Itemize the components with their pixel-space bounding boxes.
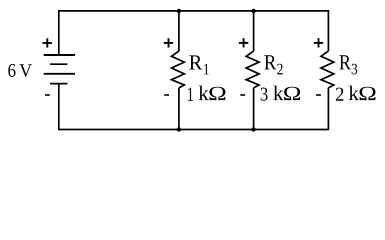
wire R2 bottom lead bbox=[253, 88, 255, 130]
wire R3 top lead bbox=[327, 11, 329, 51]
battery long plate 2 bbox=[44, 73, 75, 75]
R1 value digit 1 bbox=[188, 88, 193, 101]
R3 value letter k bbox=[349, 86, 359, 100]
resistor R2 zigzag bbox=[246, 51, 259, 88]
wire top rail bbox=[58, 10, 329, 12]
wire R1 bottom lead bbox=[178, 88, 180, 130]
R1 minus sign bbox=[164, 94, 169, 96]
R2 designator subscript 2 bbox=[277, 64, 282, 75]
resistor R1 zigzag bbox=[172, 51, 185, 88]
resistor R3 bbox=[321, 11, 334, 130]
resistor R1 bbox=[172, 11, 185, 130]
R2 plus sign bbox=[239, 38, 248, 47]
battery V1 6 V bbox=[44, 11, 75, 130]
battery value label 6 bbox=[8, 64, 15, 77]
resistor R2 bbox=[246, 11, 259, 130]
R1 designator subscript 1 bbox=[204, 64, 208, 75]
wire R2 top lead bbox=[253, 11, 255, 51]
resistor R3 zigzag bbox=[321, 51, 334, 88]
junction dot node B top bbox=[251, 9, 255, 13]
wire battery top lead bbox=[58, 11, 60, 55]
wire bottom rail bbox=[58, 129, 329, 131]
battery short plate 2 bbox=[50, 83, 67, 85]
wire R3 bottom lead bbox=[327, 88, 329, 130]
battery value label V bbox=[19, 64, 32, 77]
R2 designator letter R bbox=[264, 55, 276, 69]
battery long plate 1 bbox=[44, 54, 75, 56]
R2 value letter k bbox=[273, 86, 283, 100]
junction dot node A top bbox=[177, 9, 181, 13]
battery plus sign bbox=[43, 38, 53, 47]
R3 designator subscript 3 bbox=[352, 64, 357, 75]
battery short plate 1 bbox=[50, 63, 67, 65]
R3 plus sign bbox=[314, 38, 323, 47]
R1 plus sign bbox=[164, 38, 173, 47]
junction dot node A bottom bbox=[177, 127, 181, 131]
battery minus sign bbox=[45, 94, 50, 96]
R3 value ohm symbol bbox=[360, 87, 376, 100]
R3 value digit 2 bbox=[336, 88, 343, 101]
R3 minus sign bbox=[316, 94, 321, 96]
junction dot node B bottom bbox=[251, 127, 255, 131]
wire battery bottom lead bbox=[58, 84, 60, 130]
R1 value letter k bbox=[199, 86, 209, 100]
R2 value digit 3 bbox=[261, 88, 268, 101]
R3 designator letter R bbox=[339, 55, 350, 69]
R1 value ohm symbol bbox=[209, 87, 225, 100]
wire R1 top lead bbox=[178, 11, 180, 51]
R2 minus sign bbox=[240, 94, 245, 96]
R2 value ohm symbol bbox=[284, 87, 300, 100]
R1 designator letter R bbox=[189, 55, 202, 69]
